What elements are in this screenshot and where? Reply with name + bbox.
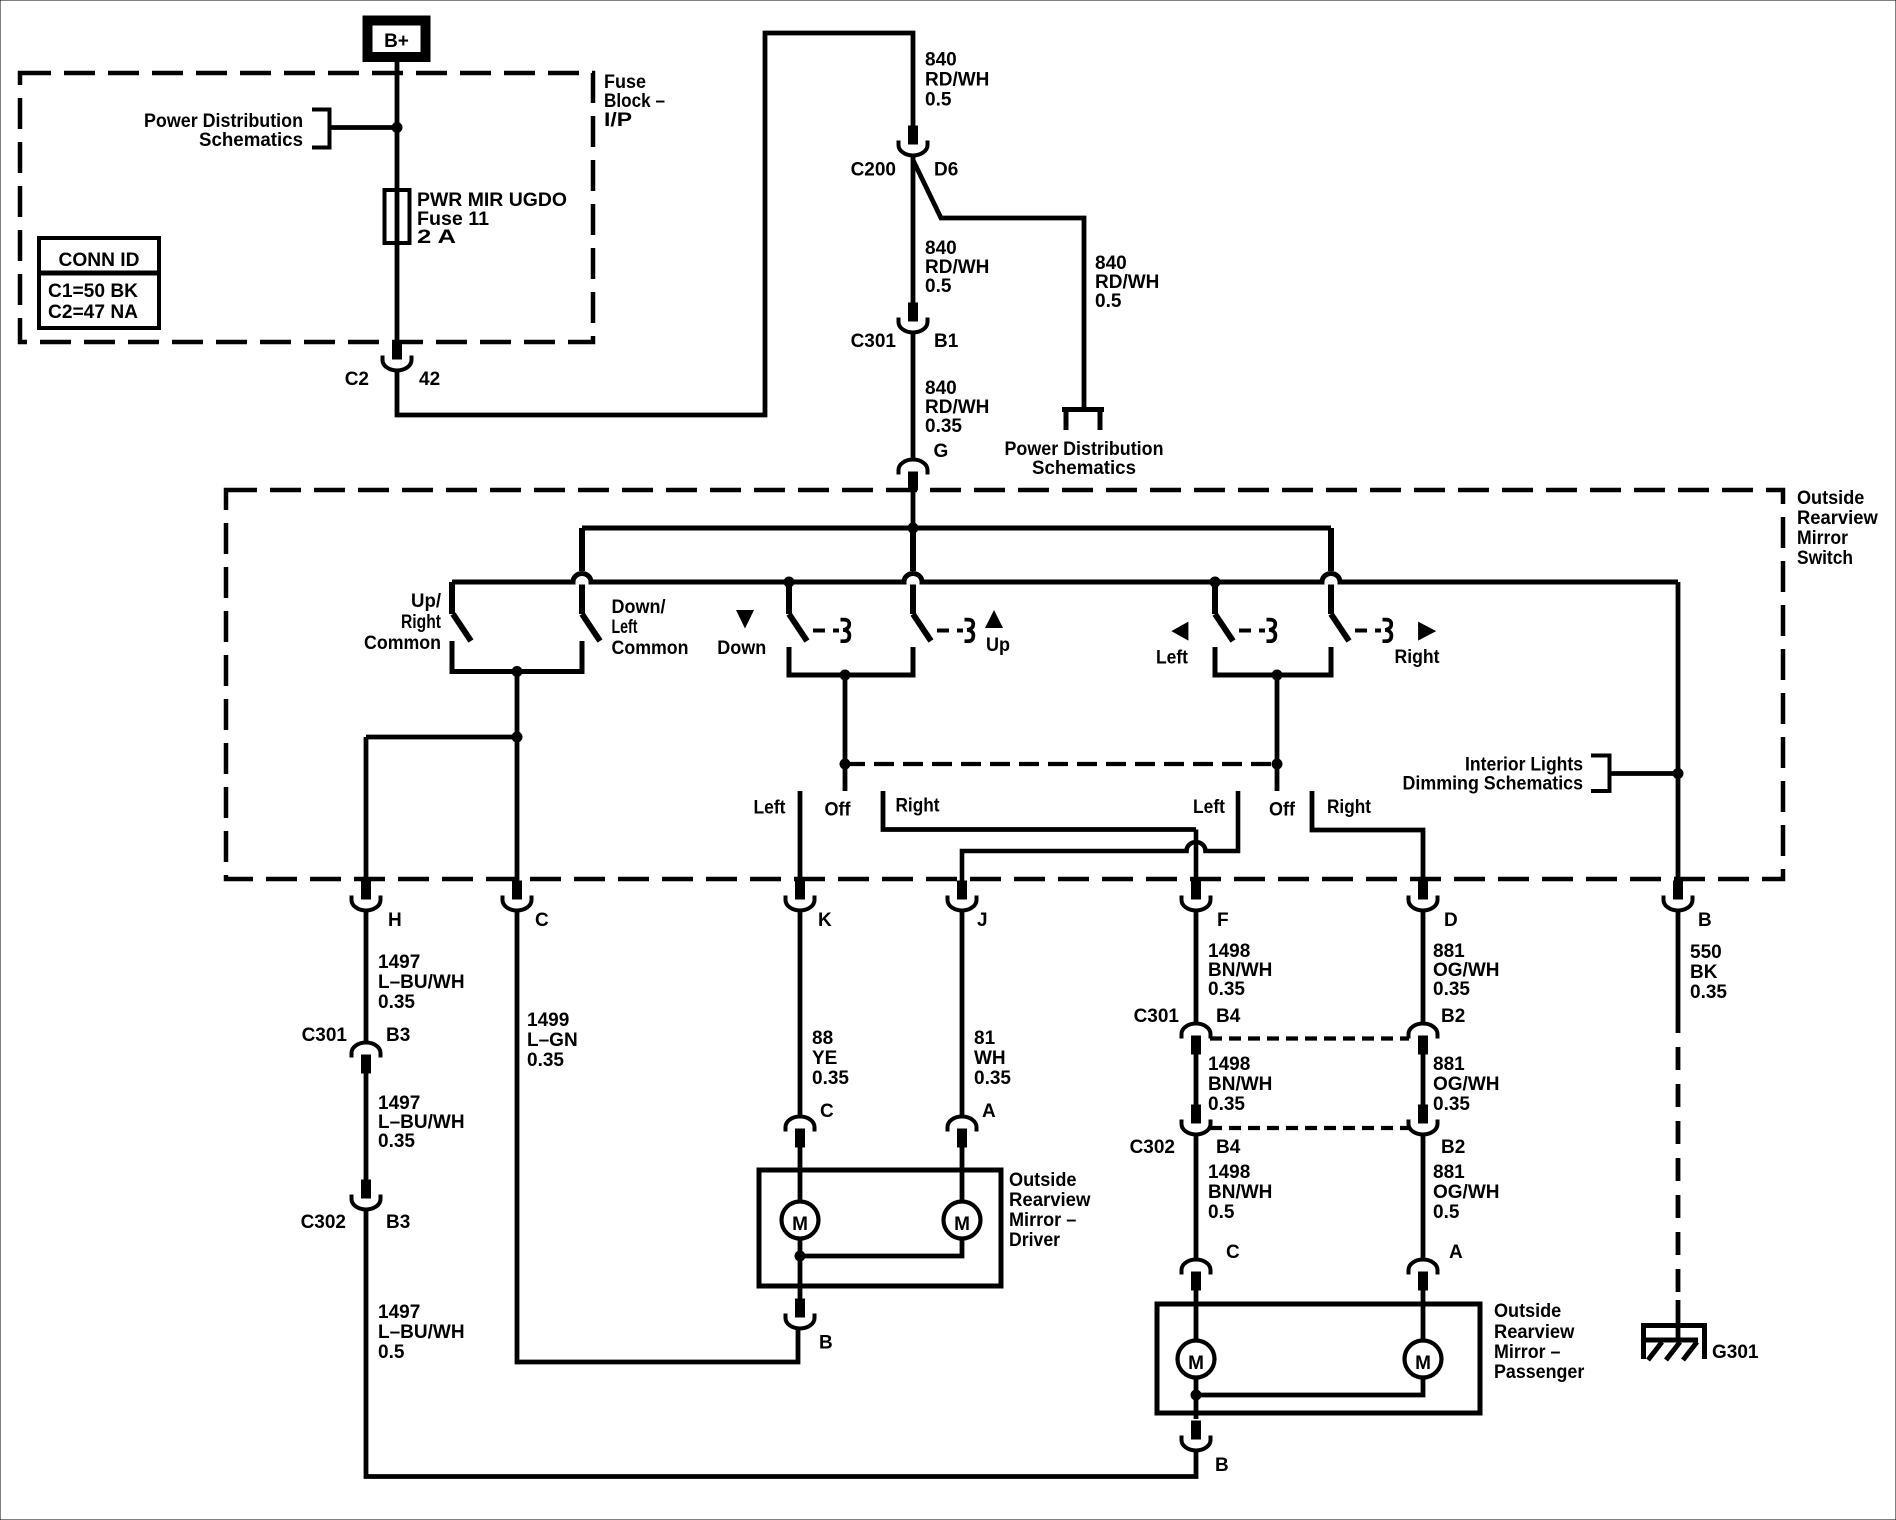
svg-text:81: 81 [974, 1028, 996, 1049]
component box Outside Rearview Mirror - Passenger [1157, 1304, 1480, 1413]
wire 840 RD/WH 0.5 branch to power distribution [913, 160, 1084, 409]
symbol arrow Up [985, 610, 1003, 628]
svg-text:C301: C301 [1134, 1006, 1180, 1027]
wire 1497 L-BU/WH 0.5 to passenger mirror B [366, 1210, 1196, 1477]
mechanical tie C301 (dashed) [1210, 1036, 1409, 1040]
svg-text:A: A [1449, 1242, 1463, 1263]
svg-text:D: D [1444, 910, 1458, 931]
svg-text:C302: C302 [1130, 1137, 1175, 1158]
svg-text:L–GN: L–GN [527, 1030, 578, 1051]
svg-text:OG/WH: OG/WH [1433, 960, 1500, 981]
wire common bar of SW1/SW2 [452, 641, 582, 672]
svg-text:L–BU/WH: L–BU/WH [378, 972, 465, 993]
wire bracket to B wire [1611, 771, 1678, 776]
wire to Off position (passenger select) [1275, 675, 1280, 791]
connector driver mirror pin C [786, 1117, 815, 1148]
wire 1497 L-BU/WH between C301 and C302 [364, 1071, 369, 1180]
junction paddle bar 2 [1272, 670, 1282, 680]
connector C200 pin D6 [899, 126, 928, 156]
svg-text:Outside: Outside [1494, 1301, 1561, 1322]
svg-text:C1=50 BK: C1=50 BK [48, 281, 138, 302]
connector passenger mirror pin A [1409, 1260, 1438, 1291]
svg-text:Down: Down [717, 638, 766, 659]
svg-text:D6: D6 [934, 160, 958, 181]
svg-text:C: C [1226, 1242, 1240, 1263]
junction H/C split [512, 732, 522, 742]
junction bus 2 / down switch [784, 577, 794, 587]
svg-text:BN/WH: BN/WH [1208, 1182, 1272, 1203]
connector pin J (switch) [948, 881, 977, 911]
wire 1498 BN/WH between C301 and C302 [1194, 1052, 1199, 1105]
svg-text:RD/WH: RD/WH [1095, 272, 1159, 293]
wire pole1 Right contact [883, 791, 1196, 830]
svg-text:BK: BK [1690, 962, 1718, 983]
connector C302 pin B4 [1182, 1105, 1211, 1135]
wire passenger motors common link [1196, 1380, 1423, 1396]
svg-text:0.35: 0.35 [1208, 1094, 1245, 1115]
svg-text:WH: WH [974, 1048, 1006, 1069]
svg-text:M: M [1415, 1353, 1431, 1374]
svg-text:Driver: Driver [1009, 1230, 1061, 1251]
svg-text:M: M [954, 1214, 970, 1235]
svg-text:Dimming Schematics: Dimming Schematics [1403, 774, 1584, 795]
svg-text:Passenger: Passenger [1494, 1362, 1585, 1383]
wire 840 RD/WH 0.35 between C301 and switch [911, 333, 916, 460]
wire 550 BK dashed segment [1676, 1010, 1681, 1300]
wire 88 YE to driver mirror [798, 911, 803, 1117]
svg-text:Switch: Switch [1797, 548, 1853, 569]
junction common bar 1 [512, 667, 522, 677]
svg-text:Right: Right [1327, 797, 1372, 818]
svg-text:BN/WH: BN/WH [1208, 960, 1272, 981]
wire 81 WH to driver mirror [960, 911, 965, 1117]
svg-text:840: 840 [925, 238, 957, 259]
svg-text:CONN ID: CONN ID [59, 250, 140, 271]
wire 840 RD/WH 0.5 between C200 and C301 [911, 156, 916, 304]
svg-text:0.5: 0.5 [1208, 1202, 1235, 1223]
svg-text:Down/: Down/ [612, 597, 667, 618]
svg-text:B: B [1698, 910, 1712, 931]
svg-text:I/P: I/P [604, 110, 632, 131]
svg-text:1497: 1497 [378, 1302, 420, 1323]
svg-text:Mirror –: Mirror – [1494, 1342, 1561, 1363]
svg-text:RD/WH: RD/WH [925, 397, 989, 418]
wire to H output [366, 735, 517, 740]
svg-text:RD/WH: RD/WH [925, 257, 989, 278]
switch SW1 Up/Right Common [449, 582, 455, 614]
svg-text:Up: Up [986, 635, 1010, 656]
svg-text:1499: 1499 [527, 1010, 569, 1031]
svg-text:1498: 1498 [1208, 1054, 1250, 1075]
svg-text:M: M [1188, 1353, 1204, 1374]
svg-text:Block –: Block – [604, 91, 665, 112]
svg-text:0.35: 0.35 [974, 1068, 1011, 1089]
connector C301 pin B2 [1409, 1024, 1438, 1055]
svg-text:B: B [819, 1333, 833, 1354]
wire to passenger left/right motor [1421, 1288, 1426, 1339]
connector driver mirror pin A [948, 1117, 977, 1148]
wire 1497 L-BU/WH to C301 [364, 911, 369, 1043]
svg-text:F: F [1217, 910, 1229, 931]
wire 881 OG/WH to C301 [1421, 911, 1426, 1024]
wire 881 OG/WH 0.5 to passenger mirror [1421, 1135, 1426, 1260]
svg-text:840: 840 [925, 50, 957, 71]
wire down to pin H [364, 737, 369, 881]
svg-text:88: 88 [812, 1028, 833, 1049]
svg-text:Rearview: Rearview [1797, 508, 1878, 529]
wire pole2 Right contact to pin D [1312, 791, 1423, 881]
svg-text:Power Distribution: Power Distribution [144, 111, 303, 132]
svg-text:Left: Left [754, 798, 787, 819]
fuse PWR MIR UGDO Fuse 11 2A [385, 190, 410, 243]
svg-text:Rearview: Rearview [1009, 1190, 1091, 1211]
wire 550 BK into ground [1676, 1300, 1681, 1340]
wire common bar of SW5/SW6 [1215, 647, 1331, 675]
connector pin H (switch) [352, 881, 381, 911]
switch pawl contact [965, 620, 974, 642]
switch pawl contact [841, 620, 850, 642]
wire passenger motor common down [1194, 1380, 1199, 1420]
svg-text:Left: Left [612, 617, 639, 638]
svg-text:B3: B3 [386, 1212, 410, 1233]
svg-text:B2: B2 [1441, 1006, 1465, 1027]
junction passenger motor common [1191, 1390, 1201, 1400]
motor M driver up/down [782, 1202, 819, 1239]
svg-text:2 A: 2 A [417, 227, 456, 248]
connector pin F (switch) [1182, 881, 1211, 911]
connector driver mirror pin B [786, 1299, 815, 1329]
svg-text:G301: G301 [1712, 1342, 1759, 1363]
svg-text:L–BU/WH: L–BU/WH [378, 1112, 465, 1133]
connector pin C (switch) [503, 881, 532, 911]
svg-text:C2: C2 [345, 369, 369, 390]
svg-text:1497: 1497 [378, 1093, 420, 1114]
svg-text:B+: B+ [384, 31, 409, 52]
connector C301 pin B4 [1182, 1024, 1211, 1055]
svg-text:0.35: 0.35 [812, 1068, 849, 1089]
junction mech link left [840, 759, 850, 769]
svg-text:0.35: 0.35 [1433, 979, 1470, 1000]
svg-text:H: H [388, 910, 402, 931]
wire 1498 BN/WH 0.5 to passenger mirror [1194, 1135, 1199, 1260]
mechanical link between selector Off positions (dashed) [845, 762, 1277, 766]
svg-text:B2: B2 [1441, 1137, 1465, 1158]
svg-text:0.5: 0.5 [1433, 1202, 1460, 1223]
svg-text:Interior Lights: Interior Lights [1465, 755, 1583, 776]
junction paddle bar 1 [840, 670, 850, 680]
wire 550 BK solid segment [1676, 911, 1681, 1011]
svg-text:0.35: 0.35 [1208, 979, 1245, 1000]
component box Fuse Block I/P (dashed) [20, 73, 593, 342]
svg-text:B4: B4 [1216, 1006, 1241, 1027]
svg-text:1498: 1498 [1208, 941, 1250, 962]
connector C2 pin 42 (fuse block output) [383, 341, 412, 371]
svg-text:A: A [982, 1101, 996, 1122]
svg-text:0.35: 0.35 [925, 416, 962, 437]
junction interior lights tap [1673, 769, 1683, 779]
svg-text:C200: C200 [851, 160, 896, 181]
motor M passenger left/right [1405, 1341, 1442, 1378]
svg-text:Mirror: Mirror [1797, 528, 1849, 549]
connector C301 pin B1 [899, 303, 928, 333]
wire pole1 Left contact to pin K [798, 791, 803, 881]
wire to driver left/right motor [960, 1145, 965, 1200]
svg-text:Common: Common [364, 633, 441, 654]
svg-text:881: 881 [1433, 1162, 1465, 1183]
svg-text:B4: B4 [1216, 1137, 1241, 1158]
off-page reference bracket (power distribution, top) [312, 110, 330, 148]
connector C301 pin B3 [352, 1043, 381, 1074]
connector pin B (switch) [1664, 881, 1693, 911]
svg-text:RD/WH: RD/WH [925, 70, 989, 91]
svg-text:Rearview: Rearview [1494, 1322, 1575, 1343]
svg-text:Up/: Up/ [411, 591, 442, 612]
svg-text:Common: Common [612, 638, 689, 659]
component box Outside Rearview Mirror Switch (dashed) [226, 490, 1783, 879]
wire common output down [515, 672, 520, 738]
off-page reference bracket (power distribution, bottom) [1062, 407, 1104, 430]
svg-text:0.5: 0.5 [1095, 291, 1122, 312]
svg-text:C2=47 NA: C2=47 NA [48, 302, 138, 323]
wire to driver up/down motor [798, 1145, 803, 1200]
wire down to pin C [515, 737, 520, 881]
connector passenger mirror pin C [1182, 1260, 1211, 1291]
svg-text:0.5: 0.5 [378, 1342, 405, 1363]
switch pawl contact [1267, 620, 1276, 642]
connector passenger mirror pin B [1182, 1421, 1211, 1451]
wire feed bus 1 [582, 526, 1331, 531]
svg-text:1498: 1498 [1208, 1162, 1250, 1183]
svg-text:C: C [820, 1101, 834, 1122]
switch SW6 Right [1328, 528, 1334, 614]
symbol arrow Right [1418, 622, 1436, 641]
svg-text:Right: Right [401, 612, 442, 633]
wire to Off position (driver select) [843, 675, 848, 791]
svg-text:Schematics: Schematics [199, 130, 303, 151]
ground G301 [1641, 1323, 1707, 1360]
svg-text:Left: Left [1193, 797, 1226, 818]
svg-text:OG/WH: OG/WH [1433, 1074, 1500, 1095]
svg-text:BN/WH: BN/WH [1208, 1074, 1272, 1095]
junction mech link right [1272, 759, 1282, 769]
svg-text:Left: Left [1156, 648, 1189, 669]
switch SW3 Down [786, 582, 792, 614]
svg-text:Off: Off [825, 800, 852, 821]
svg-text:C: C [535, 910, 549, 931]
svg-text:Mirror –: Mirror – [1009, 1210, 1076, 1231]
svg-text:Outside: Outside [1797, 488, 1864, 509]
wire pin J to pole2 Left contact (with hump over F wire) [962, 791, 1238, 881]
svg-text:OG/WH: OG/WH [1433, 1182, 1500, 1203]
wire pin F up to pole1 Right contact [1194, 830, 1199, 882]
svg-text:J: J [977, 910, 988, 931]
connector pin G (mirror switch) [899, 460, 928, 491]
svg-text:840: 840 [1095, 253, 1127, 274]
svg-text:G: G [934, 441, 949, 462]
connector pin D (switch) [1409, 881, 1438, 911]
wire driver motors common link [800, 1241, 962, 1257]
svg-text:Power Distribution: Power Distribution [1005, 439, 1164, 460]
symbol arrow Down [736, 610, 754, 629]
svg-text:PWR MIR UGDO: PWR MIR UGDO [417, 190, 567, 211]
svg-text:C301: C301 [302, 1025, 348, 1046]
svg-text:Off: Off [1269, 800, 1296, 821]
mechanical tie C302 (dashed) [1210, 1126, 1409, 1130]
svg-text:0.35: 0.35 [1433, 1094, 1470, 1115]
connector C302 pin B2 [1409, 1105, 1438, 1135]
switch SW4 Up [910, 528, 916, 614]
component box Outside Rearview Mirror - Driver [759, 1170, 1001, 1286]
svg-text:B1: B1 [934, 331, 959, 352]
motor M passenger up/down [1178, 1341, 1215, 1378]
connector C302 pin B3 [352, 1180, 381, 1210]
wire 1499 L-GN to driver mirror B [517, 911, 798, 1363]
switch SW5 Left [1212, 582, 1218, 614]
svg-text:C301: C301 [851, 331, 897, 352]
svg-text:840: 840 [925, 378, 957, 399]
wire driver motor common down [798, 1241, 803, 1300]
svg-text:L–BU/WH: L–BU/WH [378, 1322, 465, 1343]
switch SW2 Down/Left Common [579, 528, 585, 614]
off-page reference bracket (interior lights dimming) [1591, 756, 1610, 792]
wire 840 RD/WH from C2-42 up and over to C200 [397, 33, 913, 415]
wire from power distribution bracket to B+ feed [331, 125, 397, 130]
svg-text:0.5: 0.5 [925, 90, 952, 111]
junction bus 2 / left switch [1210, 577, 1220, 587]
svg-text:0.35: 0.35 [527, 1050, 564, 1071]
svg-text:0.35: 0.35 [378, 1131, 415, 1152]
svg-text:C302: C302 [301, 1212, 346, 1233]
svg-text:0.35: 0.35 [1690, 982, 1727, 1003]
CONN ID legend box [39, 238, 159, 328]
svg-text:0.5: 0.5 [925, 276, 952, 297]
svg-text:B3: B3 [386, 1025, 410, 1046]
symbol arrow Left [1171, 622, 1188, 641]
svg-text:YE: YE [812, 1048, 837, 1069]
svg-text:0.35: 0.35 [378, 992, 415, 1013]
wire 881 OG/WH between C301 and C302 [1421, 1052, 1426, 1105]
wire G pin to feed bus [911, 488, 916, 528]
svg-text:Right: Right [896, 796, 941, 817]
wire 1498 BN/WH to C301 [1194, 911, 1199, 1024]
junction on B+ feed [392, 123, 402, 133]
svg-text:881: 881 [1433, 941, 1465, 962]
junction driver motor common [795, 1251, 805, 1261]
svg-text:550: 550 [1690, 942, 1722, 963]
wire feed bus 2 (with crossover humps) [452, 574, 1678, 583]
svg-text:B: B [1215, 1455, 1229, 1476]
wire to passenger up/down motor [1194, 1288, 1199, 1339]
svg-text:42: 42 [419, 369, 440, 390]
svg-text:Schematics: Schematics [1032, 458, 1136, 479]
wire B+ feed through fuse [395, 62, 400, 342]
wire common bar of SW3/SW4 [789, 647, 913, 675]
svg-text:881: 881 [1433, 1054, 1465, 1075]
switch pawl contact [1383, 620, 1392, 642]
connector pin K (switch) [786, 881, 815, 911]
motor M driver left/right [944, 1202, 981, 1239]
svg-text:K: K [818, 910, 832, 931]
svg-text:Fuse: Fuse [604, 72, 646, 93]
svg-text:1497: 1497 [378, 952, 420, 973]
svg-text:M: M [792, 1214, 808, 1235]
wire bus2 down to pin B [1676, 582, 1681, 881]
svg-text:Right: Right [1395, 647, 1441, 668]
svg-text:Outside: Outside [1009, 1170, 1077, 1191]
junction feed bus 1 [908, 523, 918, 533]
node B+ battery terminal box [363, 16, 430, 62]
